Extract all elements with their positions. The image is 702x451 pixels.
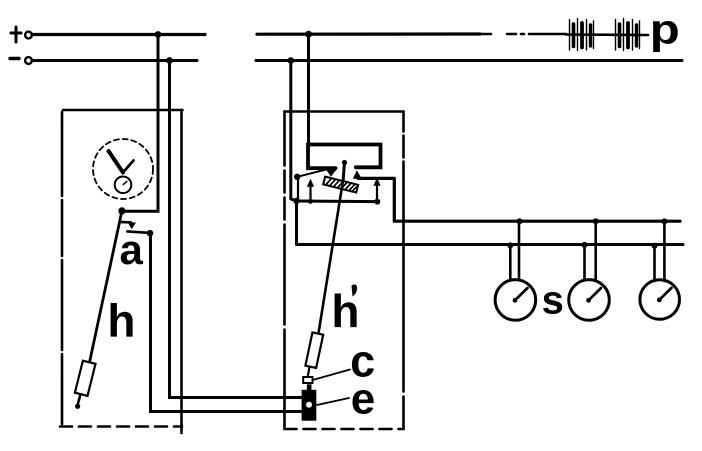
slave clock 1 center xyxy=(513,298,518,303)
pendulum h pivot xyxy=(118,207,125,214)
wire contact a to contact e xyxy=(151,233,303,412)
slave clock 3 stem right xyxy=(663,221,666,281)
junction inner bottom left xyxy=(293,198,299,204)
contact c stem xyxy=(307,384,312,390)
junction clock1 top bus xyxy=(517,218,523,224)
slave clock 3 dial xyxy=(640,280,680,320)
contact piece c xyxy=(303,377,312,383)
label h' apostrophe xyxy=(352,285,358,297)
wire - bus right segment xyxy=(256,59,682,62)
terminal + binding post xyxy=(25,32,32,39)
junction clock3 top bus xyxy=(661,218,667,224)
slave clock 1 stem left xyxy=(509,246,512,280)
master clock hour hand xyxy=(123,161,134,173)
junction + bus to master clock xyxy=(155,31,162,38)
pendulum h' lower rod xyxy=(308,367,310,375)
wire contact junction drop xyxy=(297,177,299,201)
master clock seconds subdial xyxy=(115,177,132,194)
wire + drop to electromagnet xyxy=(307,34,310,144)
pendulum h' bob xyxy=(305,332,323,368)
wire + drop to pendulum pivot xyxy=(124,35,158,212)
pendulum h' rod xyxy=(319,180,344,333)
terminal + symbol xyxy=(11,27,21,42)
wire + bus left segment xyxy=(32,33,205,36)
master clock seconds hand xyxy=(123,181,127,184)
relay contact arm junction xyxy=(294,174,300,180)
svg-text:p: p xyxy=(650,6,680,53)
junction - bus to relay box xyxy=(288,57,295,64)
junction clock2 top bus xyxy=(593,218,599,224)
terminal - binding post xyxy=(25,57,32,64)
slave clock 2 dial xyxy=(569,280,610,321)
slave clock 2 center xyxy=(586,298,591,303)
slave clock 3 center xyxy=(657,298,662,303)
armature hatched bar xyxy=(323,177,358,193)
wire to slave bottom bus xyxy=(297,201,684,245)
slave clock 2 stem right xyxy=(594,221,597,280)
pulse marks p group 2 xyxy=(616,19,640,51)
armature rod upper xyxy=(343,162,344,180)
terminal - symbol xyxy=(10,57,19,60)
relay contact left tip xyxy=(324,166,338,176)
contact e block xyxy=(302,390,317,421)
spring arrow right xyxy=(373,178,380,202)
slave clock 3 hand xyxy=(660,288,672,300)
junction + bus to relay box xyxy=(305,31,312,38)
pointer line to label e xyxy=(317,398,349,405)
contact a spring zigzag xyxy=(120,221,131,224)
armature rod top blob xyxy=(342,160,347,165)
svg-text:s: s xyxy=(542,279,564,323)
master clock minute hand xyxy=(109,151,124,173)
pendulum h bob xyxy=(75,361,96,396)
wire - drop to relay contact xyxy=(291,61,296,201)
wire - drop to contact e xyxy=(170,61,303,398)
slave clock 2 hand xyxy=(589,288,601,300)
spring arrow left xyxy=(307,179,314,202)
junction - bus to master clock xyxy=(166,57,173,64)
relay box housing xyxy=(285,112,404,430)
relay contact arm left xyxy=(297,169,327,177)
pendulum h lower rod xyxy=(77,396,80,407)
wire + bus middle segment xyxy=(257,32,480,35)
contact a junction xyxy=(147,230,154,237)
pendulum h rod xyxy=(90,211,122,361)
master clock housing box xyxy=(60,110,183,433)
pulse marks p group 1 xyxy=(570,19,594,51)
electromagnet yoke U1 xyxy=(308,145,381,169)
master clock dial xyxy=(93,139,153,199)
slave clock 1 hand xyxy=(515,288,527,300)
svg-text:h: h xyxy=(107,295,135,347)
wire + bus dashed segment xyxy=(481,33,566,36)
junction inner bottom right xyxy=(374,199,380,205)
junction inner bottom arrow left xyxy=(308,199,313,204)
pointer line to label c xyxy=(314,370,351,380)
wire + bus pulse segment xyxy=(566,33,648,36)
pendulum h rod tip xyxy=(75,404,80,409)
slave clock 2 stem left xyxy=(583,245,586,280)
svg-text:e: e xyxy=(351,374,375,423)
slave clock 1 stem right xyxy=(518,221,521,280)
contact e white speck xyxy=(306,402,312,408)
relay contact right tip xyxy=(353,170,362,179)
wire - bus left segment xyxy=(32,59,197,62)
wire relay inner bottom xyxy=(295,200,378,204)
slave clock 1 dial xyxy=(495,280,536,321)
svg-text:a: a xyxy=(120,226,144,273)
wire armature to slave top bus xyxy=(358,178,680,221)
junction clock1 bottom bus xyxy=(507,242,513,248)
slave clock 3 stem left xyxy=(653,246,656,281)
junction clock3 bottom bus xyxy=(652,243,658,249)
junction clock2 bottom bus xyxy=(582,242,588,248)
